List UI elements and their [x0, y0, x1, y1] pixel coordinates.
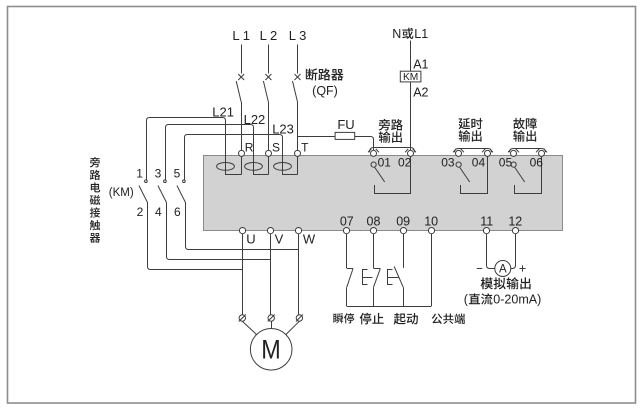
wire 11 to ammeter	[490, 268, 495, 270]
terminal 04	[485, 150, 491, 156]
KM contact 3-4	[164, 180, 167, 183]
terminal 03	[456, 150, 462, 156]
plus sign	[520, 268, 526, 270]
wire jumper bridge 01-02	[370, 148, 415, 153]
svg-text:FU: FU	[337, 117, 354, 132]
motor terminal 2	[268, 315, 274, 321]
terminal V	[267, 228, 273, 234]
label 旁路输出	[379, 119, 391, 131]
ammeter A	[495, 261, 511, 277]
relay contact 03-04	[456, 162, 461, 167]
svg-text:M: M	[261, 335, 281, 365]
svg-text:2: 2	[137, 205, 144, 219]
wire breaker pole 1 to terminal	[241, 102, 243, 150]
contactor coil KM	[400, 71, 421, 82]
connector hood	[368, 149, 371, 152]
svg-text:N: N	[392, 27, 401, 41]
wire breaker pole 3 to terminal	[297, 102, 299, 150]
terminal R	[239, 150, 245, 156]
wire L21 branch	[149, 118, 242, 175]
svg-text:0-20mA): 0-20mA)	[493, 292, 541, 306]
pushbutton 09 actuator	[388, 270, 400, 285]
wire 10 common	[431, 234, 433, 307]
connector hood	[405, 149, 408, 152]
svg-text:L21: L21	[212, 104, 234, 119]
svg-text:S: S	[272, 140, 280, 154]
wire U to motor	[242, 234, 244, 315]
svg-text:09: 09	[396, 214, 410, 228]
wire common bus	[347, 306, 431, 308]
soft starter body	[204, 156, 563, 231]
wire breaker pole 2 to terminal	[268, 102, 270, 150]
wire terminal R into body	[241, 156, 243, 174]
wire terminal S into body	[268, 156, 270, 174]
svg-text:R: R	[245, 140, 254, 154]
label 起动	[394, 313, 406, 325]
label 瞬停	[333, 313, 343, 323]
svg-text:11: 11	[480, 214, 493, 228]
wire L21 to KM contact 1	[147, 118, 150, 180]
svg-text:(: (	[464, 292, 469, 306]
circuit breaker QF pole 2 : blade	[263, 81, 268, 102]
svg-text:U: U	[246, 231, 255, 246]
wire L23 branch	[187, 135, 298, 175]
motor terminal 3	[296, 315, 302, 321]
wire KM contact 6 to motor line	[186, 203, 299, 250]
motor M	[250, 329, 292, 371]
wire supply to KM coil A1	[410, 41, 412, 72]
circuit breaker QF pole 3 : x contact	[295, 74, 301, 80]
svg-text:02: 02	[398, 155, 412, 169]
connector hood	[536, 149, 539, 152]
svg-text:05: 05	[499, 155, 513, 169]
svg-text:06: 06	[530, 155, 544, 169]
svg-text:01: 01	[378, 155, 392, 169]
connector hood	[482, 149, 485, 152]
terminal U	[239, 228, 245, 234]
svg-text:08: 08	[367, 214, 381, 228]
minus sign	[477, 268, 483, 270]
svg-text:(QF): (QF)	[312, 84, 338, 98]
svg-text:(KM): (KM)	[109, 187, 134, 199]
svg-text:L 2: L 2	[260, 28, 278, 43]
terminal W	[295, 228, 301, 234]
circuit breaker QF pole 2 : x contact	[265, 74, 271, 80]
wire 11 down	[487, 234, 490, 269]
svg-text:5: 5	[174, 167, 181, 181]
pushbutton 08 (NC stop)	[373, 234, 375, 269]
terminal 02	[408, 150, 414, 156]
svg-text:A: A	[499, 264, 507, 276]
relay contact 01-02	[371, 162, 376, 167]
label 停止	[360, 313, 372, 325]
wire terminal T into body	[297, 156, 299, 174]
terminal 06	[539, 150, 545, 156]
wire fuse to terminal 01	[355, 137, 374, 151]
wire motor terminal 1 to motor	[242, 321, 256, 334]
fuse FU	[335, 132, 355, 139]
wire L23 to KM contact 5	[185, 135, 188, 180]
svg-text:A1: A1	[413, 57, 428, 71]
svg-text:12: 12	[508, 214, 522, 228]
label 旁路电磁接触器 (vertical)	[90, 157, 100, 167]
wire L22 to KM contact 3	[166, 125, 169, 180]
svg-text:KM: KM	[403, 72, 418, 83]
wire L2 down to breaker	[268, 45, 270, 74]
svg-text:L23: L23	[272, 121, 294, 136]
terminal T	[295, 150, 301, 156]
CT ellipse phase 1	[217, 163, 235, 171]
wire T phase to fuse	[298, 136, 336, 138]
svg-text:T: T	[301, 140, 309, 154]
circuit breaker QF pole 3 : blade	[293, 81, 298, 102]
wire KM contact 4 to motor line	[167, 203, 271, 260]
svg-text:4: 4	[155, 205, 162, 219]
label 故障输出	[513, 118, 524, 129]
relay contact 05-06	[511, 162, 516, 167]
KM contact 1-2	[145, 180, 148, 183]
wire V to motor	[270, 234, 272, 315]
wire motor terminal 3 to motor	[286, 321, 300, 334]
wire L3 down to breaker	[297, 45, 299, 74]
svg-text:A2: A2	[413, 85, 428, 99]
svg-text:03: 03	[441, 155, 455, 169]
svg-text:L 1: L 1	[232, 28, 250, 43]
circuit breaker QF pole 1 : x contact	[238, 74, 244, 80]
pushbutton 07 (NC momentary stop)	[346, 234, 348, 269]
svg-text:V: V	[275, 231, 284, 246]
svg-text:1: 1	[136, 167, 143, 181]
wire jumper bridge 03-04	[455, 149, 492, 153]
wire ammeter to 12	[511, 234, 516, 269]
svg-text:6: 6	[174, 205, 181, 219]
label 模拟输出	[481, 277, 493, 289]
CT ellipse phase 3	[274, 163, 292, 171]
motor terminal 1	[239, 315, 245, 321]
svg-text:10: 10	[424, 214, 438, 228]
pushbutton 09 (NO start)	[403, 234, 405, 268]
KM contact 5-6	[183, 180, 186, 183]
svg-text:04: 04	[472, 155, 486, 169]
svg-text:L 3: L 3	[289, 28, 307, 43]
label 公共端	[432, 314, 443, 324]
svg-text:L22: L22	[244, 112, 266, 127]
connector hood	[453, 149, 456, 152]
wire W to motor	[298, 234, 300, 315]
wire KM contact 2 to motor line	[148, 203, 243, 270]
svg-text:W: W	[303, 231, 316, 246]
svg-text:3: 3	[155, 167, 162, 181]
wire L22 branch	[168, 125, 269, 175]
label 延时输出	[459, 118, 471, 129]
svg-text:07: 07	[340, 214, 354, 228]
breaker label 断路器	[306, 68, 318, 80]
pushbutton 08 actuator	[363, 270, 373, 285]
terminal S	[266, 150, 272, 156]
connector hood	[508, 149, 511, 152]
wire motor terminal 2 to motor	[271, 321, 273, 328]
svg-text:L1: L1	[414, 27, 428, 41]
circuit breaker QF pole 1 : blade	[236, 81, 241, 102]
CT ellipse phase 2	[245, 163, 263, 171]
terminal 01	[371, 150, 377, 156]
wire L1 down to breaker	[241, 45, 243, 74]
terminal 05	[511, 150, 517, 156]
wire KM coil A2 to terminal 02	[410, 82, 412, 150]
wire jumper bridge 05-06	[510, 149, 546, 153]
